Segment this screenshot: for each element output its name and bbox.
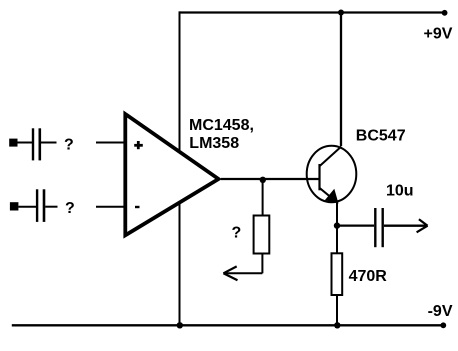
terminal dot -9V — [440, 322, 446, 328]
capacitor C? (bottom input) plate 1 — [36, 189, 38, 222]
wire resistor R? down — [261, 254, 263, 274]
transistor Q1 circle — [307, 146, 357, 202]
svg-text:LM358: LM358 — [189, 135, 239, 152]
svg-text:?: ? — [64, 137, 74, 154]
ground arrow head (open, pointing left) — [223, 266, 236, 273]
input terminal square (+ input) — [9, 139, 17, 147]
terminal dot +9V — [442, 10, 448, 16]
transistor base bar — [318, 164, 320, 190]
wire op-amp V- pin (x=179.5 from triangle to bottom rail) — [179, 204, 181, 325]
junction dot output / R? — [260, 177, 266, 183]
wire junction down to resistor R? — [262, 179, 264, 216]
wire to ground arrow (left) — [224, 272, 262, 274]
svg-text:?: ? — [65, 200, 75, 217]
junction dot emitter / 10u — [334, 222, 340, 228]
output arrow head (open, pointing right) — [419, 219, 428, 226]
op-amp U1 triangle — [125, 114, 218, 235]
wire top +9V rail — [180, 11, 445, 13]
resistor R? body — [254, 216, 270, 254]
label + (non-inverting input) — [134, 144, 143, 147]
transistor collector diagonal — [320, 147, 341, 166]
svg-text:+9V: +9V — [424, 26, 453, 43]
wire input2 to capacitor — [18, 206, 36, 208]
junction dot bottom rail / 470R — [334, 322, 340, 328]
junction dot top rail / collector — [338, 10, 344, 16]
wire capacitor to ? label — [45, 206, 57, 208]
capacitor C? (top input) plate 1 — [32, 128, 34, 160]
wire 470R to bottom rail — [336, 295, 338, 325]
capacitor 10u plate 1 — [374, 208, 376, 247]
svg-text:?: ? — [232, 224, 242, 241]
junction dot bottom rail / op-amp V- — [177, 322, 183, 328]
label - (inverting input) — [135, 206, 140, 208]
svg-text:10u: 10u — [386, 182, 414, 199]
wire emitter down to 470R — [336, 203, 338, 254]
svg-text:-9V: -9V — [428, 303, 453, 320]
capacitor C? (bottom input) plate 2 — [43, 189, 46, 222]
wire op-amp V+ pin (x=179.5 down to triangle) — [179, 11, 181, 150]
wire bottom -9V rail — [12, 324, 444, 326]
wire 10u to output arrow — [384, 225, 428, 227]
resistor 470R body — [332, 253, 343, 295]
wire input1 to capacitor — [18, 142, 33, 144]
svg-text:MC1458,: MC1458, — [189, 117, 254, 134]
input terminal square (- input) — [10, 202, 19, 210]
wire to op-amp - input — [96, 206, 126, 208]
wire capacitor to ? label — [41, 142, 57, 144]
svg-text:BC547: BC547 — [356, 127, 406, 144]
wire emitter node to 10u capacitor — [337, 224, 374, 226]
wire op-amp output to transistor base — [221, 178, 321, 180]
transistor emitter diagonal — [320, 188, 336, 201]
capacitor 10u plate 2 — [382, 208, 384, 247]
wire to op-amp + input — [96, 142, 126, 144]
svg-text:470R: 470R — [349, 268, 388, 285]
capacitor C? (top input) plate 2 — [38, 128, 41, 160]
transistor emitter arrow (filled) — [325, 189, 339, 204]
wire collector to top rail — [340, 13, 342, 147]
